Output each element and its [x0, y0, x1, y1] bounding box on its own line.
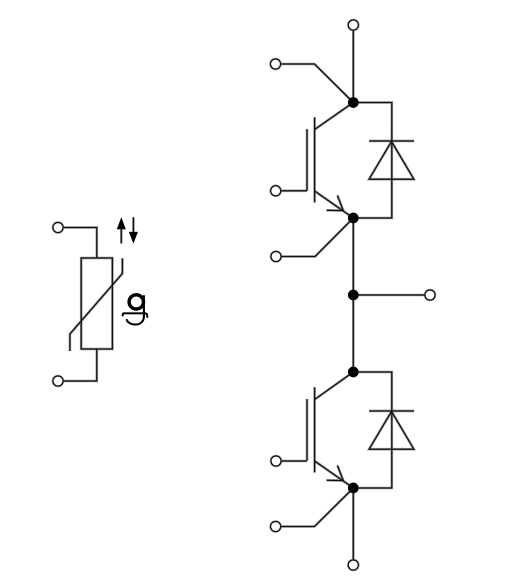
IGBT Q2 body bar — [314, 387, 316, 472]
IGBT Q2 collector lead — [315, 372, 354, 400]
terminal bottom emitter (DC-) — [348, 560, 358, 570]
wire aux emitter Q1 to emitter node — [282, 218, 354, 257]
wire gate Q1 — [281, 190, 307, 192]
terminal aux emitter Q1 — [271, 252, 281, 262]
IGBT Q2 emitter lead — [315, 461, 354, 488]
wire gate Q2 — [282, 460, 307, 462]
junction emitter node Q2 — [348, 483, 359, 494]
wire collector node to diode D1 cathode — [353, 103, 392, 141]
terminal aux emitter Q2 — [271, 522, 281, 532]
IGBT Q1 gate bar — [306, 129, 308, 191]
arrow down (temperature symbol) — [129, 217, 138, 243]
wire emitter node to midpoint — [352, 218, 354, 295]
terminal gate Q2 — [271, 456, 281, 466]
wire pin1 to thermistor top — [64, 228, 97, 259]
wire aux collector to collector node — [281, 64, 353, 103]
terminal AC output — [425, 290, 435, 300]
terminal gate Q1 — [271, 186, 281, 196]
terminal pin 2 (thermistor bottom) — [53, 376, 63, 386]
IGBT Q2 emitter arrowhead — [327, 466, 344, 481]
diode D1 triangle — [369, 141, 414, 179]
terminal pin 1 (thermistor top) — [53, 223, 63, 233]
IGBT Q2 gate bar — [306, 399, 308, 461]
wire midpoint to AC terminal — [353, 294, 424, 296]
wire thermistor bottom to pin 2 — [64, 349, 97, 381]
terminal aux collector Q1 — [271, 59, 281, 69]
diode D2 triangle — [369, 411, 414, 449]
thermistor diagonal stroke — [70, 258, 123, 351]
IGBT Q1 emitter arrowhead — [327, 196, 344, 211]
IGBT Q1 collector lead — [315, 103, 354, 130]
junction collector node Q2 — [348, 367, 359, 378]
wire DC+ to collector node — [352, 31, 354, 103]
wire collector node Q2 to diode D2 cathode — [353, 372, 392, 411]
diode D2 cathode bar — [369, 410, 414, 412]
IGBT Q1 body bar — [314, 117, 316, 202]
label theta (thermistor) — [123, 295, 148, 325]
terminal top collector (DC+) — [348, 20, 358, 30]
wire diode D1 anode to emitter node — [353, 141, 392, 218]
wire aux emitter Q2 to emitter node — [281, 488, 353, 527]
wire midpoint to collector node Q2 — [352, 295, 354, 372]
wire emitter node Q2 to DC- terminal — [352, 488, 354, 559]
wire diode D2 anode to emitter node Q2 — [353, 411, 392, 488]
IGBT Q1 emitter lead — [315, 191, 354, 218]
junction emitter node Q1 — [348, 213, 359, 224]
diode D1 cathode bar — [369, 140, 414, 142]
thermistor body rectangle — [81, 258, 112, 349]
junction collector node Q1 — [348, 97, 359, 108]
junction midpoint node — [348, 290, 359, 301]
arrow up (temperature symbol) — [117, 217, 126, 243]
